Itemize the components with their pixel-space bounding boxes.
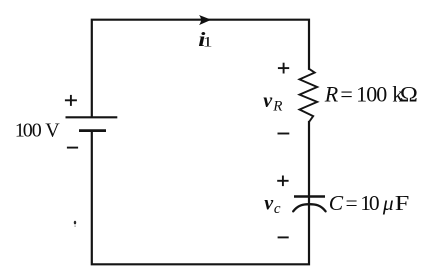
svg-text:C=10μ: C=10μ — [329, 191, 394, 215]
svg-text:vR: vR — [263, 90, 282, 115]
svg-text:Ω: Ω — [400, 83, 418, 108]
svg-text:vc: vc — [264, 193, 281, 218]
svg-text:100V: 100V — [15, 119, 61, 141]
svg-text:1: 1 — [203, 34, 213, 50]
svg-text:R=100k: R=100k — [324, 82, 404, 107]
svg-text:F: F — [395, 192, 410, 215]
